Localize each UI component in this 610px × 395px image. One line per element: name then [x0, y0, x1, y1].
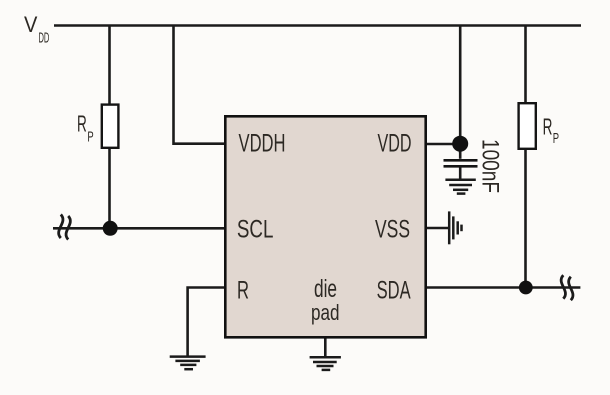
svg-text:R: R — [543, 113, 553, 139]
svg-text:VDD: VDD — [378, 130, 412, 158]
svg-text:pad: pad — [311, 300, 340, 325]
svg-text:100nF: 100nF — [476, 139, 502, 193]
svg-text:P: P — [553, 130, 559, 147]
svg-text:die: die — [314, 275, 337, 303]
svg-text:SCL: SCL — [237, 215, 274, 243]
svg-text:VSS: VSS — [375, 215, 410, 243]
svg-text:R: R — [237, 277, 249, 305]
svg-text:SDA: SDA — [377, 277, 411, 305]
svg-text:VDDH: VDDH — [239, 130, 286, 158]
svg-text:V: V — [24, 12, 37, 37]
svg-text:R: R — [77, 110, 87, 136]
svg-text:DD: DD — [39, 29, 50, 46]
svg-text:P: P — [87, 129, 93, 146]
